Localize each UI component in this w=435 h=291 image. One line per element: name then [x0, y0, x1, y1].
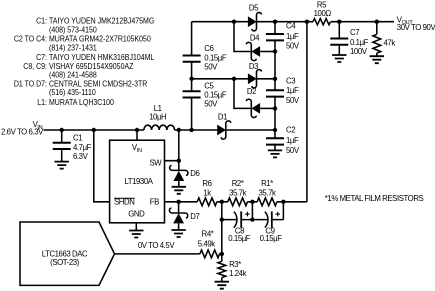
svg-text:1µF: 1µF: [286, 86, 299, 95]
svg-text:R4*: R4*: [202, 230, 214, 239]
diode D1: [217, 113, 231, 139]
wire row C (node a): [192, 78, 275, 80]
wire VIN row: [44, 129, 276, 131]
svg-text:50V: 50V: [204, 63, 218, 72]
svg-text:LTC1663 DAC: LTC1663 DAC: [42, 249, 88, 258]
inductor L1: [144, 104, 175, 130]
resistor R4: [198, 230, 222, 258]
parts list text block: [14, 16, 155, 107]
svg-text:D4: D4: [250, 34, 260, 43]
svg-text:D1: D1: [218, 113, 227, 122]
resistor 47k: [373, 22, 395, 57]
svg-text:C8, C9:: C8, C9:: [23, 61, 47, 71]
svg-text:100Ω: 100Ω: [314, 9, 332, 18]
svg-text:VIN: VIN: [132, 143, 142, 154]
svg-text:D7: D7: [190, 212, 199, 221]
svg-text:D2: D2: [247, 87, 256, 96]
svg-text:(516) 435-1110: (516) 435-1110: [49, 88, 96, 98]
svg-text:MURATA LQH3C100: MURATA LQH3C100: [49, 97, 114, 107]
svg-text:50V: 50V: [204, 100, 218, 109]
svg-text:R6: R6: [202, 179, 211, 188]
svg-text:35.7k: 35.7k: [259, 188, 276, 197]
wire SW pin to switch node: [165, 130, 179, 161]
svg-text:C3: C3: [286, 77, 295, 86]
diode D6: [170, 161, 200, 187]
svg-text:50V: 50V: [286, 42, 300, 51]
ground below C2: [268, 150, 282, 157]
wire FB row: [165, 22, 307, 202]
wire middle column segment top (node b): [234, 22, 250, 52]
DAC U2 LTC1663: [20, 222, 115, 285]
ground below C7: [332, 55, 346, 62]
svg-text:C5: C5: [204, 82, 214, 91]
svg-text:(814) 237-1431: (814) 237-1431: [49, 43, 97, 53]
resistor R6: [197, 179, 217, 206]
capacitor C1: [53, 130, 92, 162]
node VIN label: [1, 120, 44, 136]
capacitor C9: [252, 211, 283, 243]
wire left flying-cap column: [191, 22, 193, 130]
wire SHDN connection: [94, 130, 110, 202]
svg-text:C2 TO C4:: C2 TO C4:: [14, 34, 47, 44]
svg-text:0.15µF: 0.15µF: [228, 234, 251, 243]
capacitor C8: [222, 211, 253, 243]
svg-text:2.6V TO 6.3V: 2.6V TO 6.3V: [1, 128, 44, 137]
svg-text:SHDN: SHDN: [114, 198, 134, 207]
svg-text:D6: D6: [190, 169, 199, 178]
svg-text:35.7k: 35.7k: [229, 188, 246, 197]
wire speedup cap stubs: [252, 202, 283, 220]
svg-text:6.3V: 6.3V: [73, 152, 89, 161]
svg-text:D1 TO D7:: D1 TO D7:: [14, 79, 47, 89]
svg-text:0.15µF: 0.15µF: [260, 234, 283, 243]
IC U1 LT1930A: [110, 140, 165, 223]
capacitor C7: [330, 22, 368, 56]
svg-text:R2*: R2*: [232, 179, 244, 188]
capacitor C5: [183, 82, 227, 109]
svg-text:1k: 1k: [203, 188, 211, 197]
capacitor C6: [183, 44, 227, 71]
svg-text:1.24k: 1.24k: [229, 269, 246, 278]
capacitor C3: [266, 77, 300, 105]
svg-text:C2: C2: [286, 126, 295, 135]
wire divider node vertical: [221, 202, 223, 254]
capacitor C4: [266, 21, 300, 50]
svg-text:10µH: 10µH: [149, 113, 166, 122]
diode D5: [248, 3, 262, 30]
wire right storage-cap column: [274, 22, 276, 151]
svg-text:C6: C6: [204, 44, 213, 53]
ground below D7: [171, 230, 185, 237]
svg-text:D5: D5: [249, 3, 259, 12]
svg-text:0.1µF: 0.1µF: [350, 38, 369, 47]
svg-text:47k: 47k: [384, 39, 396, 48]
svg-text:SW: SW: [149, 158, 162, 167]
node VOUT label: [397, 15, 435, 32]
ground below R3: [215, 282, 229, 289]
diode D2: [246, 87, 275, 118]
svg-text:30V TO 90V: 30V TO 90V: [397, 23, 435, 32]
svg-text:FB: FB: [150, 198, 159, 207]
svg-text:L1:: L1:: [37, 97, 47, 107]
wire GND pin: [135, 223, 137, 231]
capacitor C2: [266, 126, 300, 156]
svg-text:LT1930A: LT1930A: [124, 177, 153, 186]
svg-text:50V: 50V: [286, 96, 300, 105]
diode D7: [169, 202, 199, 230]
resistor R1: [257, 179, 277, 206]
ground below C1: [55, 162, 69, 169]
svg-text:1µF: 1µF: [286, 136, 299, 145]
wire top VOUT rail: [192, 21, 394, 23]
note 1% resistors: [325, 194, 424, 203]
svg-text:0V TO 4.5V: 0V TO 4.5V: [138, 241, 175, 250]
wire VIN pin drop: [136, 130, 138, 140]
svg-text:C1: C1: [73, 134, 82, 143]
svg-text:C4: C4: [286, 21, 296, 30]
wire DAC output row: [115, 241, 200, 254]
ground below D6: [172, 187, 186, 194]
svg-text:0.15µF: 0.15µF: [204, 91, 227, 100]
svg-text:1µF: 1µF: [286, 32, 299, 41]
diode D3: [248, 62, 262, 88]
resistor R3: [218, 254, 247, 282]
svg-text:D3: D3: [249, 62, 258, 71]
svg-text:4.7µF: 4.7µF: [73, 143, 92, 152]
resistor R2: [228, 179, 248, 206]
svg-text:0.15µF: 0.15µF: [204, 53, 227, 62]
wire middle column segment lower (C to D): [234, 79, 250, 109]
svg-text:GND: GND: [128, 210, 145, 219]
svg-text:C7: C7: [350, 28, 359, 37]
ground below U1: [129, 231, 143, 238]
svg-text:C1:: C1:: [36, 16, 47, 26]
svg-text:100V: 100V: [350, 47, 368, 56]
svg-text:50V: 50V: [286, 146, 300, 155]
node junction dots: [60, 20, 379, 257]
ground below 47k: [370, 56, 384, 63]
resistor R5: [313, 0, 331, 24]
svg-text:R1*: R1*: [261, 179, 273, 188]
svg-text:*1% METAL FILM RESISTORS: *1% METAL FILM RESISTORS: [325, 194, 424, 203]
diode D4: [246, 34, 275, 61]
svg-text:(SOT-23): (SOT-23): [50, 258, 80, 267]
svg-text:5.49k: 5.49k: [198, 239, 215, 248]
